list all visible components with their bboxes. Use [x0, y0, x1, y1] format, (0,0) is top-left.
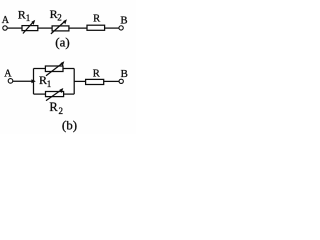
svg-text:R: R — [93, 13, 101, 24]
svg-text:A: A — [2, 15, 10, 26]
svg-text:R: R — [18, 7, 26, 21]
svg-text:A: A — [4, 69, 12, 80]
svg-text:2: 2 — [59, 106, 64, 116]
svg-text:B: B — [121, 68, 128, 80]
svg-text:R: R — [49, 100, 58, 114]
svg-text:B: B — [120, 14, 127, 26]
svg-text:(a): (a) — [55, 35, 69, 50]
svg-text:(b): (b) — [62, 118, 77, 133]
svg-text:R: R — [93, 69, 101, 80]
svg-text:1: 1 — [47, 79, 52, 89]
svg-text:2: 2 — [57, 13, 62, 23]
svg-text:1: 1 — [26, 13, 31, 23]
